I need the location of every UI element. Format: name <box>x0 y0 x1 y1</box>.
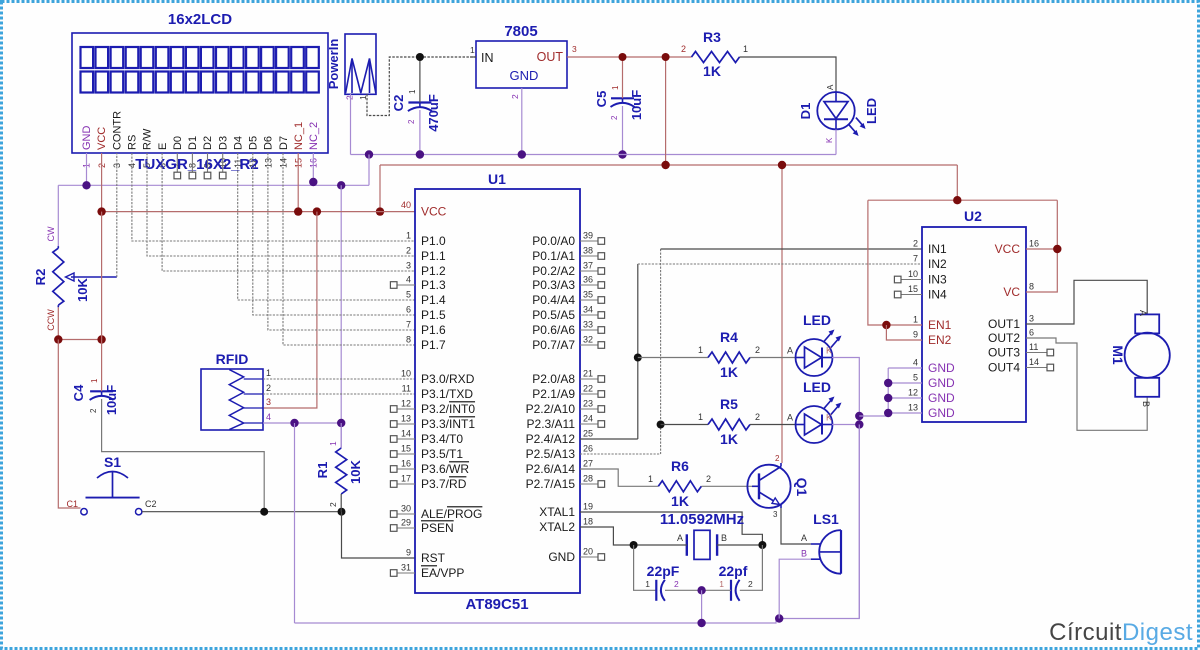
resistor R4 <box>708 352 750 363</box>
wire RFID pin4 ground <box>263 422 341 424</box>
svg-text:3: 3 <box>572 44 577 54</box>
svg-text:R4: R4 <box>720 329 738 345</box>
U1 left no-connect pins <box>390 282 415 577</box>
svg-text:1: 1 <box>645 579 650 589</box>
junction CCW left <box>54 335 62 343</box>
connector J1 PowerIn <box>345 34 376 94</box>
potentiometer R2 <box>53 246 117 307</box>
junction LCD pin1 ground <box>82 181 90 189</box>
svg-text:A: A <box>1138 310 1148 316</box>
wire D1 cathode to ground bus <box>835 129 837 154</box>
junction RFID4 R1 <box>337 419 345 427</box>
capacitor C2 symbol <box>408 101 431 103</box>
svg-text:1: 1 <box>611 85 620 90</box>
svg-text:2: 2 <box>755 412 760 422</box>
svg-text:OUT1: OUT1 <box>988 317 1020 331</box>
U1 right no-connect pins <box>580 238 605 561</box>
svg-text:P0.6/A6: P0.6/A6 <box>532 323 575 337</box>
svg-text:LS1: LS1 <box>813 511 839 527</box>
svg-text:RFID: RFID <box>216 351 249 367</box>
svg-text:13: 13 <box>263 158 273 168</box>
svg-text:8: 8 <box>1029 282 1034 292</box>
svg-text:GND: GND <box>81 126 93 151</box>
wire ground riser to LCD ground bus <box>368 155 370 186</box>
svg-text:9: 9 <box>913 330 918 340</box>
wire LCD pin1 GND down <box>86 153 88 185</box>
junction U2 GND pin13 <box>884 409 892 417</box>
wire C4 pin2 to reset node <box>102 399 265 512</box>
wire VCC rail to Q1 collector <box>781 165 783 463</box>
svg-text:27: 27 <box>583 459 593 469</box>
svg-text:5: 5 <box>913 373 918 383</box>
svg-text:XTAL1: XTAL1 <box>539 505 575 519</box>
svg-text:3: 3 <box>1029 314 1034 324</box>
wire U1 P2.6 to R6 <box>580 469 658 486</box>
svg-text:9: 9 <box>406 548 411 558</box>
svg-text:C1: C1 <box>66 499 78 509</box>
svg-text:6: 6 <box>1029 328 1034 338</box>
svg-text:RST: RST <box>421 551 446 565</box>
svg-text:15: 15 <box>401 444 411 454</box>
svg-text:P1.4: P1.4 <box>421 293 446 307</box>
svg-text:P0.4/A4: P0.4/A4 <box>532 293 575 307</box>
svg-text:R1: R1 <box>315 462 330 479</box>
junction LED cathode bus upper <box>855 412 863 420</box>
LED D1 <box>817 92 865 136</box>
svg-text:U1: U1 <box>488 171 506 187</box>
wire LCD VCC bus to U1 pin 40 <box>102 211 415 213</box>
svg-text:1: 1 <box>90 378 99 383</box>
svg-text:CW: CW <box>46 226 56 241</box>
junction R1 reset <box>338 508 346 516</box>
wire LED lower cathode <box>832 424 859 426</box>
junction bottom bus LS1 <box>775 614 783 622</box>
svg-text:22pF: 22pF <box>647 563 680 579</box>
svg-text:11: 11 <box>1029 342 1038 352</box>
svg-text:CírcuitDigest: CírcuitDigest <box>1049 619 1193 646</box>
svg-text:GND: GND <box>928 406 955 420</box>
wire LCD D6 to U1 P1.6 <box>268 153 415 330</box>
svg-text:35: 35 <box>583 290 593 300</box>
svg-text:1: 1 <box>913 315 918 325</box>
LCD character cells row 1 <box>81 47 319 68</box>
svg-text:P1.0: P1.0 <box>421 234 446 248</box>
wire R6 to Q1 base <box>701 485 752 487</box>
svg-text:1: 1 <box>648 474 653 484</box>
svg-text:34: 34 <box>583 305 593 315</box>
svg-text:1: 1 <box>266 368 271 378</box>
svg-text:M1: M1 <box>1110 345 1126 365</box>
C5 pin 2 wire to ground bus <box>622 106 624 155</box>
wire riser P2.5/IN1 <box>660 249 662 454</box>
wire IN1 horizontal to U2 <box>661 248 922 250</box>
wire LCD pin2 VCC down <box>101 153 103 212</box>
svg-text:A: A <box>677 533 683 543</box>
wire PowerIn pin2 down <box>350 94 352 155</box>
svg-text:P3.2/INT0: P3.2/INT0 <box>421 402 475 416</box>
svg-text:3: 3 <box>773 510 778 519</box>
svg-text:12: 12 <box>401 399 411 409</box>
svg-text:LED: LED <box>803 312 831 328</box>
svg-text:GND: GND <box>510 68 539 83</box>
junction RFID4 branch <box>290 419 298 427</box>
motor M1 <box>1125 314 1170 396</box>
junction caps ground <box>697 586 705 594</box>
junction LCD pin2 VCC <box>97 207 105 215</box>
svg-text:D4: D4 <box>232 136 244 150</box>
svg-text:1: 1 <box>743 44 748 54</box>
svg-text:19: 19 <box>583 502 593 512</box>
wire VCC feed node <box>868 199 1057 201</box>
U2 left pin labels <box>928 242 955 420</box>
wire 7805 OUT to VCC rail <box>665 57 667 165</box>
svg-text:XTAL2: XTAL2 <box>539 520 575 534</box>
LCD no-connect squares pins 7-10 (D0-D3) <box>174 153 226 179</box>
svg-text:LED: LED <box>864 98 879 124</box>
svg-text:P2.3/A11: P2.3/A11 <box>527 417 576 431</box>
svg-text:2: 2 <box>681 44 686 54</box>
svg-text:7: 7 <box>406 320 411 330</box>
wire U2 OUT2 to motor B <box>1026 338 1147 430</box>
wire VCC riser from LCD bus <box>379 165 381 212</box>
svg-text:1: 1 <box>406 231 411 241</box>
junction crystal B <box>758 541 766 549</box>
svg-text:2: 2 <box>755 345 760 355</box>
svg-text:40: 40 <box>401 200 411 210</box>
svg-text:10K: 10K <box>75 277 90 301</box>
wire VCC feed to EN1 <box>868 200 922 325</box>
svg-text:25: 25 <box>583 429 593 439</box>
svg-text:10: 10 <box>908 269 918 279</box>
svg-text:R2: R2 <box>33 269 48 286</box>
svg-text:OUT2: OUT2 <box>988 331 1020 345</box>
svg-text:P2.1/A9: P2.1/A9 <box>532 387 575 401</box>
svg-text:32: 32 <box>583 335 593 345</box>
svg-text:LED: LED <box>803 379 831 395</box>
junction OUT riser bottom <box>661 161 669 169</box>
svg-text:36: 36 <box>583 275 593 285</box>
capacitor C4 symbol <box>90 390 113 392</box>
junction C2 / IN <box>416 53 424 61</box>
svg-text:D0: D0 <box>172 136 184 150</box>
svg-text:1K: 1K <box>720 364 738 380</box>
wire PowerIn pin1 to 7805 IN <box>367 57 476 116</box>
svg-text:2: 2 <box>913 239 918 249</box>
svg-text:GND: GND <box>928 361 955 375</box>
svg-text:GND: GND <box>928 391 955 405</box>
wire U1 P2.4 to R4 net riser <box>580 438 638 440</box>
svg-text:470uF: 470uF <box>426 94 441 132</box>
svg-text:D1: D1 <box>187 136 199 150</box>
svg-text:2: 2 <box>89 408 98 413</box>
svg-text:4: 4 <box>406 275 411 285</box>
voltage regulator 7805 body <box>476 41 567 88</box>
svg-text:GND: GND <box>548 550 575 564</box>
svg-text:R6: R6 <box>671 458 689 474</box>
svg-text:D6: D6 <box>263 136 275 150</box>
svg-text:22pf: 22pf <box>719 563 748 579</box>
wire RFID pin1 to U1 RXD <box>263 378 415 380</box>
svg-text:2: 2 <box>345 95 355 100</box>
wire cathode bus to U2 ground <box>859 415 888 417</box>
svg-text:P3.5/T1: P3.5/T1 <box>421 447 463 461</box>
wire CCW link <box>58 339 101 341</box>
svg-text:P3.4/T0: P3.4/T0 <box>421 432 463 446</box>
svg-text:VCC: VCC <box>421 205 447 219</box>
svg-text:16: 16 <box>1029 239 1039 249</box>
junction ground riser <box>365 150 373 158</box>
svg-text:16x2LCD: 16x2LCD <box>168 11 232 28</box>
16x2 LCD module outline <box>72 33 328 153</box>
junction crystal A <box>630 541 638 549</box>
microcontroller U1 body <box>415 189 580 593</box>
svg-text:P2.2/A10: P2.2/A10 <box>526 402 576 416</box>
svg-text:12: 12 <box>908 388 918 398</box>
svg-text:33: 33 <box>583 320 593 330</box>
svg-text:P2.6/A14: P2.6/A14 <box>526 462 576 476</box>
svg-text:1K: 1K <box>671 493 689 509</box>
svg-text:A: A <box>787 413 793 423</box>
svg-text:7: 7 <box>913 254 918 264</box>
junction R4 branch <box>634 354 642 362</box>
svg-text:D1: D1 <box>798 103 813 120</box>
svg-text:P0.7/A7: P0.7/A7 <box>532 338 575 352</box>
svg-text:15: 15 <box>908 284 918 294</box>
wire U1 P2.5 to R5 net riser <box>580 453 661 455</box>
S1 terminal C2 <box>136 509 142 515</box>
svg-text:10: 10 <box>401 369 411 379</box>
wire ground bus to R2 CW <box>57 185 59 246</box>
svg-text:P0.1/A1: P0.1/A1 <box>532 249 575 263</box>
svg-text:D5: D5 <box>248 136 260 150</box>
wire 7805 OUT to R3 <box>567 56 692 58</box>
wire U1 XTAL2 to crystal A <box>580 527 634 545</box>
wire Q1 emitter to LS1 A <box>781 508 811 544</box>
svg-text:P2.5/A13: P2.5/A13 <box>526 447 576 461</box>
svg-text:NC_2: NC_2 <box>308 122 320 150</box>
wire VCC feed to U2 VCC pin16 <box>1026 200 1057 292</box>
svg-text:RS: RS <box>127 135 139 150</box>
wire R4 to LED anode <box>750 357 796 359</box>
capacitor 22pf right <box>730 580 732 601</box>
svg-text:A: A <box>787 346 793 356</box>
junction EN1/EN2 <box>882 321 890 329</box>
U2 left pin numbers <box>908 239 918 413</box>
wire 7805 GND pin down <box>521 88 523 155</box>
junction LED cathode bus lower <box>855 420 863 428</box>
svg-text:11: 11 <box>402 384 411 394</box>
U2 no-connect pins IN3 IN4 <box>894 276 922 298</box>
svg-text:P1.1: P1.1 <box>421 249 446 263</box>
svg-text:2: 2 <box>266 383 271 393</box>
C2 pin 2 wire to ground bus <box>419 110 421 155</box>
wire S1 C2 to reset node <box>142 511 342 513</box>
svg-text:IN2: IN2 <box>928 257 947 271</box>
junction VCC Q1 branch <box>778 161 786 169</box>
svg-text:R3: R3 <box>703 29 721 45</box>
wire R2 CCW down <box>57 307 59 339</box>
LED lower (red) <box>796 397 842 444</box>
buzzer LS1 <box>811 530 841 574</box>
svg-text:CONTR: CONTR <box>111 111 123 150</box>
svg-text:D7: D7 <box>278 136 290 150</box>
junction LCD pin15 <box>294 207 302 215</box>
svg-text:P3.1/TXD: P3.1/TXD <box>421 387 473 401</box>
junction VCC to RFID pin3 branch <box>313 207 321 215</box>
wire LS1 B to ground bus <box>779 559 811 618</box>
svg-text:VCC: VCC <box>96 127 108 150</box>
svg-text:EA/VPP: EA/VPP <box>421 566 464 580</box>
svg-text:1: 1 <box>719 579 724 589</box>
svg-text:10uF: 10uF <box>629 90 644 120</box>
wire S1 C1 branch <box>58 340 80 509</box>
svg-text:4: 4 <box>266 412 271 422</box>
wire LED upper cathode <box>832 358 859 619</box>
svg-text:13: 13 <box>401 414 411 424</box>
wire R5 to LED anode <box>750 424 796 426</box>
capacitor 22pF left <box>655 580 657 601</box>
svg-text:D2: D2 <box>202 136 214 150</box>
svg-text:VCC: VCC <box>995 242 1021 256</box>
svg-text:GND: GND <box>928 376 955 390</box>
LCD character cells row 2 <box>81 72 319 93</box>
U2 right pin labels <box>988 242 1020 375</box>
LED upper (green) <box>796 330 842 377</box>
wire riser P2.4/IN2 <box>637 264 639 439</box>
svg-text:P3.3/INT1: P3.3/INT1 <box>421 417 475 431</box>
svg-text:39: 39 <box>583 231 593 241</box>
svg-text:3: 3 <box>266 397 271 407</box>
svg-text:OUT4: OUT4 <box>988 361 1020 375</box>
junction CCW right <box>97 335 105 343</box>
wire R4 pin1 <box>638 357 708 359</box>
svg-text:38: 38 <box>583 246 593 256</box>
svg-text:P1.3: P1.3 <box>421 278 446 292</box>
svg-text:10K: 10K <box>348 459 363 483</box>
wire LCD RS to U1 P1.0 <box>132 153 415 241</box>
junction U2 GND pin12 <box>884 394 892 402</box>
svg-text:23: 23 <box>583 399 593 409</box>
svg-text:R/W: R/W <box>142 128 154 150</box>
svg-text:11.0592MHz: 11.0592MHz <box>660 511 744 528</box>
junction C4 reset <box>260 508 268 516</box>
svg-text:20: 20 <box>583 547 593 557</box>
svg-text:1K: 1K <box>703 63 721 79</box>
transistor Q1 <box>747 463 790 508</box>
svg-text:37: 37 <box>583 261 593 271</box>
svg-text:22: 22 <box>583 384 593 394</box>
wire LCD R/W to U1 P1.1 <box>147 153 415 256</box>
svg-text:IN: IN <box>481 51 494 65</box>
svg-text:C4: C4 <box>71 384 86 401</box>
svg-text:2: 2 <box>610 115 619 120</box>
svg-text:OUT3: OUT3 <box>988 346 1020 360</box>
junction R5 branch <box>657 421 665 429</box>
svg-text:1: 1 <box>328 441 338 446</box>
crystal X1 11.0592MHz <box>634 530 763 559</box>
svg-text:AT89C51: AT89C51 <box>465 596 528 613</box>
motor driver U2 body <box>922 227 1026 422</box>
svg-text:2: 2 <box>674 579 679 589</box>
svg-text:Q1: Q1 <box>794 478 810 497</box>
svg-text:21: 21 <box>583 369 593 379</box>
resistor R5 <box>708 419 750 430</box>
svg-text:A: A <box>801 533 807 543</box>
C4 pin1 wire <box>101 340 103 392</box>
wire LCD pin15 NC_1 down <box>297 153 299 212</box>
svg-text:1: 1 <box>408 89 417 94</box>
junction VCC riser <box>376 207 384 215</box>
svg-text:P0.2/A2: P0.2/A2 <box>532 264 575 278</box>
svg-text:31: 31 <box>401 563 411 573</box>
C5 pin 1 wire <box>622 57 624 98</box>
svg-text:24: 24 <box>583 414 593 424</box>
svg-text:1: 1 <box>698 345 703 355</box>
wire LCD E to U1 P1.2 <box>162 153 415 271</box>
S1 terminal C1 <box>81 509 87 515</box>
svg-text:EN2: EN2 <box>928 333 952 347</box>
wire ground branch down to RFID pin4 and R1 <box>340 185 342 448</box>
svg-text:S1: S1 <box>104 454 121 470</box>
svg-text:C2: C2 <box>145 499 157 509</box>
wire VCC rail <box>380 164 957 166</box>
svg-text:TUXGR_16X2_R2: TUXGR_16X2_R2 <box>135 156 258 173</box>
svg-text:30: 30 <box>401 504 411 514</box>
U1 right pin labels <box>526 234 576 564</box>
RFID pin numbers <box>266 368 271 422</box>
svg-text:P2.7/A15: P2.7/A15 <box>526 477 576 491</box>
U2 right pin numbers <box>1029 239 1039 368</box>
svg-text:IN3: IN3 <box>928 273 947 287</box>
wire RFID pin2 to U1 TXD <box>263 393 415 395</box>
wire IN2 horizontal to U2 <box>638 263 922 265</box>
svg-text:10uF: 10uF <box>104 385 119 415</box>
svg-text:A: A <box>826 84 835 90</box>
svg-text:PSEN: PSEN <box>421 521 454 535</box>
svg-text:3: 3 <box>406 261 411 271</box>
U1 right pin numbers <box>583 231 593 557</box>
wire crystal A to C22pF-1 <box>634 545 657 590</box>
junction bottom bus crystal <box>697 619 705 627</box>
junction U2 VCC <box>1053 245 1061 253</box>
wire caps junction to ground bus <box>701 590 703 623</box>
svg-text:D3: D3 <box>217 136 229 150</box>
svg-text:13: 13 <box>908 403 918 413</box>
svg-text:P3.0/RXD: P3.0/RXD <box>421 372 475 386</box>
svg-text:IN4: IN4 <box>928 288 947 302</box>
junction C5 ground <box>618 150 626 158</box>
svg-text:8: 8 <box>406 335 411 345</box>
svg-text:P1.6: P1.6 <box>421 323 446 337</box>
svg-text:2: 2 <box>407 119 416 124</box>
svg-text:2: 2 <box>406 246 411 256</box>
wire reset node to U1 RST <box>342 512 416 558</box>
svg-text:1K: 1K <box>720 431 738 447</box>
svg-text:P1.7: P1.7 <box>421 338 446 352</box>
wire U2 OUT1 to motor A <box>1026 280 1147 324</box>
svg-text:B: B <box>1141 401 1151 407</box>
junction OUT / C5 <box>619 53 627 61</box>
svg-text:2: 2 <box>328 502 338 507</box>
svg-text:B: B <box>801 549 807 559</box>
svg-text:P1.5: P1.5 <box>421 308 446 322</box>
svg-text:26: 26 <box>583 444 593 454</box>
7805 pin 1 stub <box>470 56 476 58</box>
wire LCD ground bus <box>58 184 369 186</box>
svg-text:29: 29 <box>401 518 411 528</box>
svg-text:14: 14 <box>1029 357 1039 367</box>
svg-text:17: 17 <box>401 474 411 484</box>
